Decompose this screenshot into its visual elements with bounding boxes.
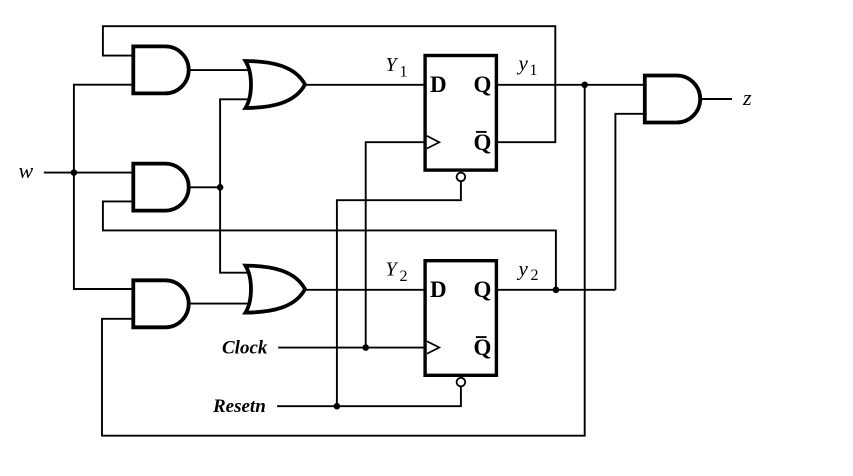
svg-text:y: y xyxy=(517,51,529,75)
AND gate (top left, inputs ybar1 and w) xyxy=(133,46,188,93)
svg-text:w: w xyxy=(19,158,34,183)
D flip-flop FF1 body xyxy=(425,56,496,171)
wire: w input to junction and AND2 top input xyxy=(44,172,136,174)
svg-text:2: 2 xyxy=(400,268,408,285)
wire: FF1 Qbar feedback to AND1 top input (net ybar1) xyxy=(103,26,555,142)
wire: w branch to AND1 and AND3 top inputs xyxy=(74,85,136,289)
node label y1 xyxy=(517,51,538,79)
svg-text:D: D xyxy=(430,72,447,97)
junction: y2 node xyxy=(553,287,560,294)
junction: y1 node xyxy=(581,82,588,89)
wire: AND2 output to junction xyxy=(188,186,220,188)
svg-text:Y: Y xyxy=(386,259,399,281)
svg-text:Q: Q xyxy=(474,130,492,155)
svg-text:Clock: Clock xyxy=(222,337,268,358)
svg-text:D: D xyxy=(430,277,447,302)
wire: AND1 output to OR1 top input xyxy=(188,69,255,71)
wire: FF1 Q output to AND4 top input (net y1) xyxy=(498,84,647,86)
D flip-flop FF2 body xyxy=(425,261,496,376)
svg-text:1: 1 xyxy=(400,64,408,81)
wire: Clock branch up to FF1 clock xyxy=(366,142,425,347)
AND gate (output z) xyxy=(645,76,700,123)
OR gate (output Y2) xyxy=(246,266,306,313)
node label y2 xyxy=(517,256,539,284)
node label Y2 xyxy=(386,259,408,285)
wire: FF2 Q output (net y2) xyxy=(498,289,616,291)
wire: AND3 output to OR2 bottom input xyxy=(188,303,255,305)
svg-text:z: z xyxy=(742,85,752,110)
FF2 reset bubble xyxy=(457,378,466,387)
FF1 reset bubble xyxy=(457,173,466,182)
svg-text:Y: Y xyxy=(386,54,399,76)
svg-text:Q: Q xyxy=(474,72,492,97)
FF1 clock triangle xyxy=(427,136,439,149)
AND gate (bottom left, inputs w and y1) xyxy=(133,280,188,327)
junction: w node xyxy=(71,169,78,176)
wire: y1 feedback down and around to AND3 bottom input xyxy=(102,85,585,436)
junction: Clock node xyxy=(362,344,369,351)
svg-text:1: 1 xyxy=(530,62,538,79)
wire: Clock input to FF2 clock xyxy=(278,347,424,349)
svg-text:Q: Q xyxy=(474,277,492,302)
wire: Resetn branch up to FF1 reset bubble xyxy=(337,181,461,406)
wire: Resetn input to FF2 reset bubble xyxy=(277,386,461,406)
svg-text:2: 2 xyxy=(531,267,539,284)
AND gate (middle left, inputs w and y2) xyxy=(133,164,188,211)
wire: y2 up to AND4 bottom input xyxy=(615,114,646,290)
wire: OR1 output to FF1 D input (net Y1) xyxy=(305,84,425,86)
wire: AND2 output branch to OR1 and OR2 inputs xyxy=(220,99,255,272)
svg-text:y: y xyxy=(517,256,529,280)
FF2 clock triangle xyxy=(427,341,439,354)
FF1 pin label Qbar xyxy=(474,130,492,155)
node label Y1 xyxy=(386,54,408,80)
FF2 pin label Qbar xyxy=(474,335,492,360)
wire: y2 feedback to AND2 bottom input xyxy=(103,201,556,289)
svg-text:Resetn: Resetn xyxy=(212,396,266,417)
wire: OR2 output to FF2 D input (net Y2) xyxy=(305,289,425,291)
junction: AND2 output node xyxy=(217,184,224,191)
junction: Resetn node xyxy=(334,403,341,410)
svg-text:Q: Q xyxy=(474,335,492,360)
OR gate (output Y1) xyxy=(246,61,306,108)
wire: AND4 output to z xyxy=(700,98,732,100)
